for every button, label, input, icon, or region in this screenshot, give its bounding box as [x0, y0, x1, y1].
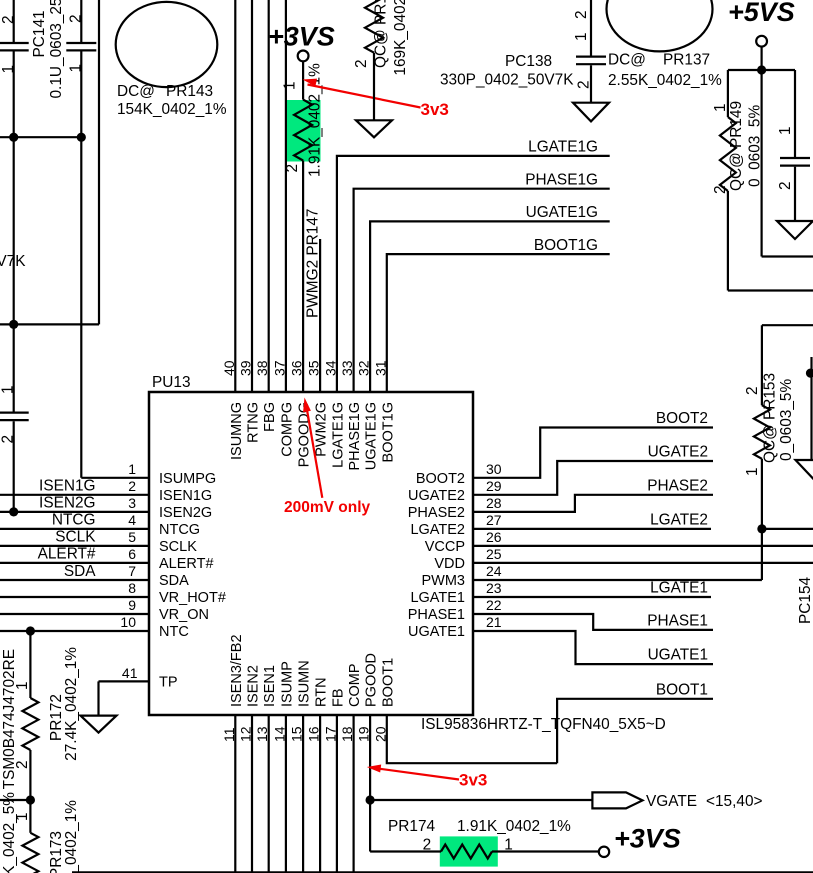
wire pin14 [285, 715, 287, 873]
svg-text:2: 2 [744, 386, 761, 395]
svg-text:+3VS: +3VS [268, 22, 335, 52]
svg-text:+5VS: +5VS [728, 0, 795, 27]
wire pin2 [0, 494, 149, 496]
svg-text:PHASE1: PHASE1 [408, 607, 465, 623]
node junction [9, 133, 18, 142]
wire pin38 [268, 0, 270, 392]
wire [0, 136, 82, 138]
svg-text:PWM3: PWM3 [422, 573, 466, 589]
svg-text:ISEN2G: ISEN2G [39, 495, 95, 512]
wire pin12 [251, 715, 253, 873]
svg-text:2: 2 [777, 181, 794, 190]
svg-text:27.4K_0402_1%: 27.4K_0402_1% [63, 647, 80, 761]
svg-text:8: 8 [128, 580, 136, 596]
svg-text:PU13: PU13 [152, 374, 191, 391]
svg-text:UGATE2: UGATE2 [408, 488, 465, 504]
svg-text:ISEN2: ISEN2 [246, 665, 262, 707]
svg-text:1: 1 [0, 385, 17, 394]
green highlight PR147 [287, 100, 321, 162]
svg-text:LGATE1: LGATE1 [410, 590, 465, 606]
capacitor PC141 unit B [80, 0, 82, 42]
svg-text:PGOOD: PGOOD [364, 653, 380, 707]
ground [777, 221, 813, 239]
node junction [26, 795, 35, 804]
capacitor PC154 stub [810, 357, 812, 460]
wire pin35 PWMG2 stub [319, 239, 321, 392]
svg-text:SCLK: SCLK [55, 529, 96, 546]
resistor PR174 [441, 845, 492, 859]
wire PHASE1 [473, 614, 713, 630]
svg-text:SDA: SDA [159, 573, 189, 589]
svg-text:1: 1 [0, 65, 17, 74]
resistor PR147 [302, 61, 304, 99]
svg-text:VGATE: VGATE [646, 793, 697, 810]
resistor QC@ PR149 [727, 70, 729, 117]
wire [29, 631, 31, 698]
wire VGATE [370, 799, 592, 801]
wire VCCP [473, 545, 813, 547]
wire LGATE1 [473, 596, 711, 598]
svg-text:ISEN3/FB2: ISEN3/FB2 [229, 634, 245, 707]
svg-text:1: 1 [744, 467, 761, 476]
node junction [757, 65, 766, 74]
wire [98, 0, 100, 324]
svg-text:2.55K_0402_1%: 2.55K_0402_1% [608, 72, 722, 89]
svg-text:PC138: PC138 [505, 53, 552, 70]
wire pin3 [0, 511, 149, 513]
svg-text:2: 2 [68, 14, 85, 23]
wire pin11 [234, 715, 236, 873]
svg-text:UGATE1: UGATE1 [648, 647, 708, 664]
svg-text:QC@ PR149: QC@ PR149 [728, 101, 745, 191]
svg-text:COMPG: COMPG [279, 402, 295, 457]
ground [573, 103, 609, 122]
svg-text:2: 2 [423, 837, 432, 854]
IC PU13 body [149, 392, 473, 715]
svg-text:9: 9 [128, 597, 136, 613]
wire BOOT1 [387, 715, 557, 763]
svg-text:0_0603_5%: 0_0603_5% [778, 379, 795, 461]
svg-text:154K_0402_1%: 154K_0402_1% [117, 101, 227, 118]
svg-text:7: 7 [128, 563, 136, 579]
ground [356, 120, 392, 137]
wire pin40 [234, 0, 236, 392]
svg-text:2: 2 [712, 185, 729, 194]
svg-text:UGATE2: UGATE2 [648, 444, 708, 461]
svg-text:ISUMN: ISUMN [297, 660, 313, 707]
svg-text:ALERT#: ALERT# [159, 556, 214, 572]
wire pin37 [285, 0, 287, 392]
svg-text:27: 27 [486, 512, 502, 528]
svg-text:3v3: 3v3 [421, 100, 449, 119]
svg-text:3: 3 [128, 495, 136, 511]
capacitor C right [794, 70, 796, 157]
capacitor C left [0, 412, 29, 414]
svg-text:QC@ PR146: QC@ PR146 [373, 0, 390, 68]
svg-text:1: 1 [128, 461, 136, 477]
ground [796, 460, 813, 479]
resistor QC@ PR153 [762, 324, 813, 326]
svg-text:1: 1 [68, 64, 85, 73]
svg-text:4K_0402_1%: 4K_0402_1% [63, 800, 80, 873]
svg-text:COMP: COMP [347, 664, 363, 708]
wire pin41 TP [99, 680, 150, 682]
svg-text:PR174: PR174 [388, 818, 435, 835]
capacitor PC141 unit A [13, 0, 15, 42]
wire pin6 [0, 562, 149, 564]
svg-text:BOOT2: BOOT2 [656, 410, 708, 427]
wire pin9 [0, 613, 149, 615]
wire BOOT2 [473, 428, 713, 478]
svg-text:PHASE1G: PHASE1G [525, 172, 598, 189]
wire UGATE1 [473, 631, 713, 664]
wire pin16 [319, 715, 321, 873]
svg-text:29: 29 [486, 478, 502, 494]
svg-text:ISEN1G: ISEN1G [159, 488, 212, 504]
svg-text:41: 41 [122, 665, 138, 681]
svg-text:21: 21 [486, 614, 502, 630]
svg-text:PHASE1: PHASE1 [647, 612, 708, 629]
svg-text:23: 23 [486, 580, 502, 596]
svg-text:RTN: RTN [314, 677, 330, 707]
svg-text:22: 22 [486, 597, 502, 613]
wire pin1 ISUMPG [81, 477, 149, 479]
svg-text:BOOT2: BOOT2 [416, 471, 465, 487]
svg-text:BOOT1G: BOOT1G [380, 402, 396, 462]
svg-text:LGATE1: LGATE1 [650, 579, 708, 596]
svg-text:VR_HOT#: VR_HOT# [159, 590, 226, 606]
wire LGATE2 [473, 528, 711, 530]
svg-text:SCLK: SCLK [159, 539, 197, 555]
wire [760, 47, 762, 257]
svg-text:3v3: 3v3 [459, 771, 487, 790]
node junction [757, 524, 766, 533]
node junction [9, 507, 18, 516]
wire net BOOT1G [387, 254, 610, 392]
svg-text:PHASE1G: PHASE1G [347, 402, 363, 471]
resistor QC@ PR146 169K [365, 0, 383, 53]
wire net UGATE1G [370, 221, 610, 392]
svg-text:ISEN2G: ISEN2G [159, 505, 212, 521]
node junction [26, 626, 35, 635]
wire net LGATE1G [337, 156, 610, 392]
wire pin19 PGOOD [369, 715, 371, 852]
svg-text:0V7K: 0V7K [0, 253, 26, 270]
svg-text:2: 2 [284, 164, 301, 173]
net pointer VGATE [592, 792, 642, 808]
wire PWM3 [473, 579, 762, 581]
annotation arrow 200mV [306, 403, 323, 498]
wire pin18 [353, 715, 355, 873]
green highlight PR174 [440, 836, 498, 866]
svg-text:ISEN1: ISEN1 [262, 665, 278, 707]
wire pin8 [0, 596, 149, 598]
svg-text:PC154: PC154 [797, 577, 813, 624]
wire pin15 [302, 715, 304, 873]
svg-text:<15,40>: <15,40> [706, 793, 763, 810]
svg-text:2: 2 [128, 478, 136, 494]
svg-text:LGATE2: LGATE2 [650, 511, 708, 528]
svg-text:ISUMPG: ISUMPG [159, 471, 216, 487]
svg-text:1: 1 [777, 126, 794, 135]
svg-text:24: 24 [486, 563, 502, 579]
svg-text:2: 2 [576, 80, 593, 89]
svg-text:1: 1 [504, 837, 513, 854]
wire UGATE2 [473, 461, 713, 495]
sheet border [72, 871, 813, 873]
svg-text:ISUMP: ISUMP [279, 661, 295, 707]
svg-text:2: 2 [0, 435, 17, 444]
svg-text:BOOT1: BOOT1 [380, 658, 396, 707]
svg-text:PHASE2: PHASE2 [647, 477, 708, 494]
wire VDD [473, 562, 813, 564]
wire pin4 [0, 528, 149, 530]
svg-text:2: 2 [0, 15, 17, 24]
svg-text:1: 1 [282, 81, 299, 90]
svg-text:0_0603_5%: 0_0603_5% [747, 105, 764, 187]
svg-text:VR_ON: VR_ON [159, 607, 209, 623]
svg-text:PC141: PC141 [31, 10, 48, 57]
wire net PHASE1G [354, 189, 610, 392]
wire [370, 850, 441, 852]
node junction [9, 320, 18, 329]
wire [29, 750, 31, 800]
svg-text:10: 10 [120, 614, 136, 630]
svg-text:BOOT1: BOOT1 [656, 681, 708, 698]
svg-text:DC@: DC@ [608, 52, 646, 69]
svg-text:TP: TP [159, 674, 178, 690]
svg-text:6: 6 [128, 546, 136, 562]
svg-text:5: 5 [128, 529, 136, 545]
svg-text:NTCG: NTCG [159, 522, 200, 538]
svg-text:PWM2G: PWM2G [314, 402, 330, 457]
svg-text:NTC: NTC [159, 624, 189, 640]
svg-text:1: 1 [573, 32, 590, 41]
svg-text:UGATE1G: UGATE1G [364, 402, 380, 470]
svg-text:4K_0402_5%: 4K_0402_5% [1, 792, 18, 873]
svg-text:DC@: DC@ [117, 83, 155, 100]
resistor PR172 [22, 698, 38, 750]
svg-text:200mV only: 200mV only [284, 499, 371, 516]
svg-text:BOOT1G: BOOT1G [534, 237, 598, 254]
svg-text:VCCP: VCCP [425, 539, 465, 555]
svg-text:ISUMNG: ISUMNG [229, 402, 245, 460]
capacitor PC138 [590, 0, 592, 56]
wire pin10 [0, 630, 149, 632]
svg-text:ISL95836HRTZ-T_TQFN40_5X5~D: ISL95836HRTZ-T_TQFN40_5X5~D [421, 716, 666, 733]
annotation arrow 3v3 bottom [374, 768, 459, 780]
svg-text:PWMG2 PR147: PWMG2 PR147 [305, 209, 322, 318]
svg-text:VDD: VDD [434, 556, 465, 572]
svg-text:169K_0402_1%: 169K_0402_1% [392, 0, 409, 76]
svg-text:LGATE1G: LGATE1G [528, 139, 598, 156]
svg-text:PR137: PR137 [663, 52, 710, 69]
svg-text:TSM0B474J4702RE: TSM0B474J4702RE [1, 649, 18, 789]
svg-text:+3VS: +3VS [614, 824, 681, 854]
svg-text:FB: FB [330, 688, 346, 707]
wire pin39 [251, 0, 253, 392]
node junction [366, 795, 375, 804]
svg-text:30: 30 [486, 461, 502, 477]
svg-text:4: 4 [128, 512, 136, 528]
svg-text:NTCG: NTCG [52, 512, 96, 529]
wire pin7 [0, 579, 149, 581]
svg-text:0.1U_0603_25: 0.1U_0603_25 [48, 0, 65, 99]
wire pin13 [268, 715, 270, 873]
svg-text:UGATE1G: UGATE1G [526, 204, 598, 221]
svg-text:25: 25 [486, 546, 502, 562]
svg-text:2: 2 [573, 10, 590, 19]
svg-text:ALERT#: ALERT# [38, 546, 96, 563]
svg-text:UGATE1: UGATE1 [408, 624, 465, 640]
svg-text:SDA: SDA [64, 563, 96, 580]
wire pin5 [0, 545, 149, 547]
svg-text:26: 26 [486, 529, 502, 545]
svg-text:FBG: FBG [262, 402, 278, 432]
resistor PR173 [29, 800, 31, 833]
svg-text:330P_0402_50V7K: 330P_0402_50V7K [440, 72, 574, 89]
wire pin17 [336, 715, 338, 873]
ellipse marker PR137 [607, 0, 713, 51]
wire PHASE2 [473, 495, 713, 512]
svg-text:28: 28 [486, 495, 502, 511]
annotation arrow 3v3 top [308, 85, 421, 108]
svg-text:1: 1 [712, 103, 729, 112]
svg-text:1.91K_0402_1%: 1.91K_0402_1% [457, 818, 571, 835]
svg-text:ISEN1G: ISEN1G [39, 478, 95, 495]
svg-text:LGATE2: LGATE2 [410, 522, 465, 538]
svg-text:LGATE1G: LGATE1G [330, 402, 346, 468]
node junction [77, 133, 86, 142]
ellipse marker PR143 [116, 2, 218, 87]
svg-text:2: 2 [353, 59, 370, 68]
power +3VS bottom [599, 847, 609, 857]
svg-text:RTNG: RTNG [246, 402, 262, 443]
svg-text:PHASE2: PHASE2 [408, 505, 465, 521]
svg-text:PR143: PR143 [166, 83, 213, 100]
svg-text:QC@ PR153: QC@ PR153 [762, 373, 779, 463]
ground [81, 716, 117, 733]
